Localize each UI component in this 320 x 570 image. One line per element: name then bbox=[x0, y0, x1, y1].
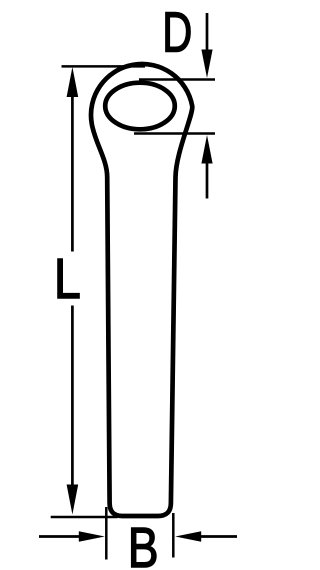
B dimension right arrow pointing left bbox=[175, 531, 237, 542]
L dimension line lower segment with down arrow bbox=[67, 306, 79, 515]
L top extension line bbox=[62, 65, 146, 68]
label B bbox=[128, 515, 159, 570]
eye bolt body outline bbox=[91, 64, 192, 516]
eye hole ellipse bbox=[105, 83, 175, 130]
svg-text:D: D bbox=[162, 0, 192, 64]
D top extension line bbox=[139, 78, 215, 81]
D dimension down arrow bbox=[201, 13, 212, 78]
B right extension line bbox=[172, 513, 175, 558]
L bottom extension line bbox=[51, 516, 118, 519]
B dimension left arrow pointing right bbox=[39, 531, 105, 542]
label D bbox=[162, 0, 192, 64]
label L bbox=[54, 247, 81, 311]
B left extension line bbox=[105, 507, 108, 560]
svg-text:B: B bbox=[128, 515, 159, 570]
D dimension up arrow bbox=[201, 135, 212, 199]
D bottom extension line bbox=[134, 132, 215, 135]
svg-text:L: L bbox=[54, 247, 81, 311]
L dimension line upper segment with up arrow bbox=[67, 67, 79, 252]
